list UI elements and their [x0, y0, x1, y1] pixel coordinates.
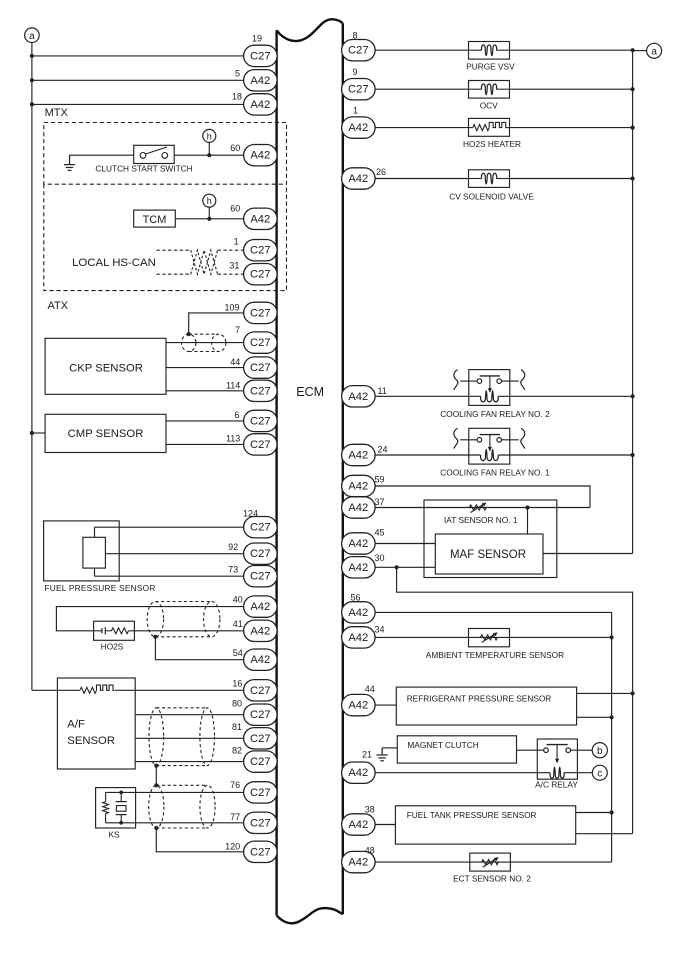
MAGNET CLUTCH box: [397, 736, 516, 763]
CMP SENSOR box: [45, 414, 166, 452]
svg-text:37: 37: [375, 497, 385, 507]
connector C27 pin 9: [342, 79, 376, 100]
wire refrigerant top out: [577, 692, 633, 694]
svg-text:h: h: [207, 196, 212, 206]
wire pin73: [95, 575, 244, 577]
wire relay contact to node b: [571, 749, 593, 751]
shield (CKP pin7): [182, 334, 196, 351]
connector C27 pin 80: [244, 704, 278, 725]
svg-text:54: 54: [233, 648, 243, 658]
svg-text:26: 26: [376, 167, 386, 177]
connector A42 pin 54: [244, 649, 278, 670]
svg-text:A42: A42: [348, 502, 368, 514]
connector C27 pin 113: [244, 434, 278, 455]
wire pin76: [136, 791, 244, 793]
svg-text:C27: C27: [250, 415, 271, 427]
connector A42 pin 60: [244, 145, 278, 166]
connector A42 pin 18: [244, 94, 278, 115]
svg-text:34: 34: [375, 625, 385, 635]
a-bus vertical wire: [632, 50, 634, 553]
ATX dashed box: [44, 184, 287, 290]
shield link wire: [155, 766, 157, 786]
svg-text:C27: C27: [250, 337, 271, 349]
connector C27 pin 1: [244, 240, 278, 261]
svg-text:A42: A42: [250, 99, 270, 111]
wire pin16: [115, 689, 244, 691]
A/C relay coil: [550, 767, 564, 778]
thermistor IAT SENSOR NO.1: [469, 505, 486, 510]
svg-text:C27: C27: [250, 756, 271, 768]
FUEL PRESSURE SENSOR box: [44, 521, 120, 581]
svg-text:b: b: [597, 746, 603, 757]
wire bus to CMP: [32, 432, 45, 434]
KS box: [96, 788, 136, 828]
svg-text:A42: A42: [348, 857, 368, 869]
svg-text:A42: A42: [348, 632, 368, 644]
connector A42 pin 56: [342, 602, 376, 623]
HO2S box: [94, 621, 135, 640]
connector A42 pin 41: [244, 620, 278, 641]
connector A42 pin 44: [342, 694, 376, 715]
wire pin80: [135, 714, 243, 716]
svg-text:77: 77: [230, 812, 240, 822]
svg-text:82: 82: [232, 746, 242, 756]
wire pin81: [135, 737, 243, 739]
svg-text:45: 45: [375, 527, 385, 537]
svg-text:C27: C27: [250, 709, 271, 721]
wire pin8 to PURGE VSV: [375, 49, 468, 51]
svg-text:A42: A42: [348, 122, 368, 134]
wire pin45: [375, 543, 435, 545]
wire relay coil to node c: [564, 772, 592, 774]
wire pin48 (ECT): [375, 861, 611, 863]
svg-text:C27: C27: [250, 571, 271, 583]
connector C27 pin 76: [244, 782, 278, 803]
KS rails: [106, 791, 136, 793]
svg-text:OCV: OCV: [480, 101, 498, 111]
svg-text:81: 81: [232, 722, 242, 732]
wire pin21 to relay coil: [375, 772, 550, 774]
connector A42 pin 21: [342, 762, 376, 783]
svg-text:80: 80: [232, 699, 242, 709]
CKP SENSOR box: [45, 338, 166, 394]
svg-text:C27: C27: [250, 522, 271, 534]
connector A42 pin 59: [342, 475, 376, 496]
HO2S cell + resistor: [94, 630, 102, 632]
svg-text:21: 21: [362, 749, 372, 759]
wire switch to pin60: [174, 154, 243, 156]
ECM bottom break wave: [277, 908, 343, 923]
shield (HO2S): [147, 602, 163, 637]
wire HO2S HEATER to a-bus: [510, 127, 633, 129]
shield (A/F sensor): [149, 708, 164, 766]
solenoid CV SOLENOID VALVE: [469, 170, 510, 188]
relay COOLING FAN RELAY NO.2 armature arrow: [489, 376, 491, 389]
svg-text:CMP SENSOR: CMP SENSOR: [68, 428, 144, 440]
connector A42 pin 37: [342, 497, 376, 518]
left bus wire: [31, 43, 33, 691]
wire pin1 to HO2S HEATER: [375, 127, 468, 129]
svg-text:A42: A42: [348, 562, 368, 574]
relay COOLING FAN RELAY NO.1 wire-break braces: [454, 428, 458, 448]
svg-text:ECM: ECM: [296, 385, 324, 399]
node c: [592, 765, 607, 780]
svg-text:C27: C27: [348, 84, 369, 96]
net30 wire down: [397, 567, 633, 833]
svg-text:9: 9: [353, 67, 358, 77]
wire bus to A/F heater: [32, 689, 58, 691]
svg-text:A42: A42: [250, 150, 270, 162]
svg-text:1: 1: [353, 106, 358, 116]
wire refrigerant bottom out: [577, 716, 612, 718]
svg-text:COOLING FAN RELAY NO. 2: COOLING FAN RELAY NO. 2: [440, 409, 550, 419]
wire pin18: [32, 103, 244, 105]
ECM right edge: [342, 23, 344, 914]
wire pin113: [166, 443, 244, 445]
svg-text:HO2S HEATER: HO2S HEATER: [463, 139, 521, 149]
svg-text:31: 31: [229, 261, 239, 271]
wire OCV to a-bus: [510, 88, 633, 90]
wire pin109: [189, 313, 244, 334]
ground (magnet clutch): [382, 747, 397, 749]
connector C27 pin 16: [244, 680, 278, 701]
svg-text:8: 8: [353, 31, 358, 41]
wire pin9 to OCV: [375, 88, 468, 90]
svg-text:124: 124: [243, 508, 258, 518]
A/F SENSOR box: [57, 678, 135, 769]
shield (KS): [149, 785, 164, 828]
wire pin24 through relay coil to a-bus: [375, 454, 481, 456]
svg-text:A42: A42: [250, 625, 270, 637]
wire pin11 through relay coil to a-bus: [375, 395, 481, 397]
A/C relay armature arrow: [556, 745, 558, 760]
svg-text:C27: C27: [250, 817, 271, 829]
svg-text:73: 73: [228, 565, 238, 575]
svg-text:A42: A42: [250, 213, 270, 225]
wire PURGE VSV to a-bus: [510, 49, 633, 51]
svg-text:TCM: TCM: [143, 214, 167, 226]
thermistor ECT SENSOR NO.2: [470, 853, 511, 871]
TCM box: [134, 210, 176, 227]
svg-text:CLUTCH START SWITCH: CLUTCH START SWITCH: [95, 164, 192, 174]
svg-text:41: 41: [233, 619, 243, 629]
svg-text:C27: C27: [250, 269, 271, 281]
svg-text:59: 59: [375, 475, 385, 485]
relay A/C RELAY box: [537, 739, 577, 779]
svg-text:PURGE VSV: PURGE VSV: [466, 62, 515, 72]
svg-text:C27: C27: [250, 787, 271, 799]
MAF SENSOR box: [435, 534, 543, 574]
connector C27 pin 124: [244, 517, 278, 538]
connector C27 pin 82: [244, 751, 278, 772]
svg-text:30: 30: [375, 553, 385, 563]
relay COOLING FAN RELAY NO.2 box: [469, 370, 510, 406]
wire pin56: [375, 612, 611, 862]
svg-text:92: 92: [228, 542, 238, 552]
svg-text:19: 19: [252, 33, 262, 43]
connector A42 pin 60: [244, 208, 278, 229]
wire TCM to pin60: [175, 218, 243, 220]
svg-text:A42: A42: [348, 173, 368, 185]
relay COOLING FAN RELAY NO.1 box: [469, 428, 510, 464]
wire pin44: [166, 367, 244, 369]
relay COOLING FAN RELAY NO.1 coil: [481, 450, 499, 461]
svg-text:REFRIGERANT PRESSURE SENSOR: REFRIGERANT PRESSURE SENSOR: [407, 693, 552, 703]
wire pin7: [166, 342, 244, 344]
relay COOLING FAN RELAY NO.1 contacts: [460, 439, 477, 441]
svg-text:SENSOR: SENSOR: [67, 735, 115, 747]
svg-text:C27: C27: [250, 548, 271, 560]
connector A42 pin 5: [244, 70, 278, 91]
node a (left): [25, 28, 40, 43]
relay COOLING FAN RELAY NO.2 contacts: [460, 380, 477, 382]
connector A42 pin 11: [342, 386, 376, 407]
twisted pair CAN wires: [157, 249, 191, 251]
svg-text:6: 6: [234, 410, 239, 420]
connector C27 pin 77: [244, 812, 278, 833]
connector C27 pin 92: [244, 543, 278, 564]
connector C27 pin 19: [244, 45, 278, 66]
svg-text:44: 44: [230, 357, 240, 367]
svg-text:C27: C27: [250, 685, 271, 697]
svg-text:A42: A42: [250, 75, 270, 87]
svg-text:CKP SENSOR: CKP SENSOR: [69, 362, 143, 374]
wire pin120 (shield drain): [156, 828, 243, 852]
svg-text:C27: C27: [250, 846, 271, 858]
connector C27 pin 31: [244, 264, 278, 285]
wire pin19: [32, 55, 244, 57]
node b: [592, 743, 607, 758]
wire IAT junction into MAF: [527, 508, 529, 535]
wire pin124: [95, 526, 244, 528]
thermistor AMBIENT TEMPERATURE SENSOR: [469, 629, 510, 647]
svg-text:C27: C27: [250, 362, 271, 374]
wire pin40: [56, 607, 243, 631]
wire pin92: [105, 553, 243, 555]
A/F heater element: [57, 689, 80, 691]
connector A42 pin 30: [342, 557, 376, 578]
ECM left edge: [275, 30, 277, 915]
svg-text:MTX: MTX: [45, 107, 69, 119]
svg-text:A42: A42: [250, 654, 270, 666]
svg-text:76: 76: [230, 780, 240, 790]
connector A42 pin 45: [342, 533, 376, 554]
node h (switch): [203, 129, 216, 142]
svg-text:113: 113: [226, 433, 240, 443]
fuel pressure sensor element: [83, 537, 106, 568]
wire fuel tank bottom out: [576, 833, 633, 835]
connector A42 pin 38: [342, 814, 376, 835]
svg-text:1: 1: [234, 237, 239, 247]
solenoid PURGE VSV: [469, 42, 510, 60]
relay COOLING FAN RELAY NO.1 armature arrow: [489, 435, 491, 448]
svg-text:ATX: ATX: [48, 300, 69, 312]
svg-text:24: 24: [378, 445, 388, 455]
svg-text:IAT SENSOR NO. 1: IAT SENSOR NO. 1: [444, 515, 518, 525]
wire pin30: [375, 566, 435, 568]
wire pin26 to CV SOLENOID VALVE: [375, 178, 468, 180]
ground (clutch start switch): [69, 155, 71, 164]
resistor HO2S HEATER: [469, 118, 510, 136]
connector C27 pin 7: [244, 332, 278, 353]
wire CV SOLENOID VALVE to a-bus: [510, 178, 633, 180]
svg-text:h: h: [207, 131, 212, 141]
connector C27 pin 44: [244, 357, 278, 378]
svg-text:5: 5: [235, 68, 240, 78]
svg-text:FUEL TANK PRESSURE SENSOR: FUEL TANK PRESSURE SENSOR: [407, 810, 537, 820]
connector A42 pin 1: [342, 117, 376, 138]
wire fuel tank top out: [576, 812, 612, 814]
connector A42 pin 40: [244, 596, 278, 617]
wire pin114: [166, 390, 244, 392]
svg-text:KS: KS: [108, 830, 120, 840]
svg-text:7: 7: [235, 325, 240, 335]
connector C27 pin 81: [244, 728, 278, 749]
MAF assembly outer box: [424, 500, 557, 578]
svg-text:a: a: [29, 31, 35, 42]
connector C27 pin 6: [244, 410, 278, 431]
svg-text:18: 18: [232, 92, 242, 102]
svg-text:MAGNET CLUTCH: MAGNET CLUTCH: [407, 740, 478, 750]
relay COOLING FAN RELAY NO.2 wire-break braces: [454, 370, 458, 390]
svg-text:60: 60: [230, 203, 240, 213]
wire pin82: [135, 761, 243, 763]
wire pin37 (IAT): [375, 507, 590, 509]
svg-text:a: a: [651, 46, 657, 57]
node h (TCM): [203, 194, 216, 207]
wire MAF output to a-bus: [543, 553, 633, 555]
connector A42 pin 34: [342, 627, 376, 648]
svg-text:COOLING FAN RELAY NO. 1: COOLING FAN RELAY NO. 1: [440, 468, 550, 478]
wire pin44: [375, 704, 396, 706]
connector A42 pin 24: [342, 444, 376, 465]
wire pin38: [375, 824, 395, 826]
FUEL TANK PRESSURE SENSOR box: [395, 806, 575, 844]
svg-text:A42: A42: [348, 819, 368, 831]
connector C27 pin 8: [342, 40, 376, 61]
connector C27 pin 109: [244, 302, 278, 323]
svg-text:16: 16: [232, 679, 242, 689]
MTX dashed box: [44, 123, 287, 185]
svg-text:A/C RELAY: A/C RELAY: [535, 779, 578, 789]
svg-text:C27: C27: [348, 45, 369, 57]
svg-text:LOCAL HS-CAN: LOCAL HS-CAN: [72, 257, 156, 269]
svg-text:109: 109: [224, 302, 239, 312]
connector C27 pin 114: [244, 380, 278, 401]
svg-text:A42: A42: [348, 538, 368, 550]
svg-text:C27: C27: [250, 50, 271, 62]
wire pin77: [136, 822, 244, 824]
svg-text:A42: A42: [348, 450, 368, 462]
svg-text:A42: A42: [348, 481, 368, 493]
wire pin41: [134, 630, 243, 632]
wire pin59: [375, 486, 590, 508]
wire pin6: [166, 420, 244, 422]
svg-text:C27: C27: [250, 439, 271, 451]
svg-text:C27: C27: [250, 245, 271, 257]
ECM top break wave: [277, 19, 343, 41]
REFRIGERANT PRESSURE SENSOR box: [396, 687, 576, 725]
svg-text:C27: C27: [250, 307, 271, 319]
svg-text:C27: C27: [250, 385, 271, 397]
wire magnet clutch to relay contact: [517, 749, 544, 751]
svg-text:HO2S: HO2S: [101, 641, 124, 651]
solenoid OCV: [469, 81, 510, 99]
svg-text:11: 11: [378, 386, 387, 396]
connector A42 pin 48: [342, 851, 376, 872]
svg-text:FUEL PRESSURE SENSOR: FUEL PRESSURE SENSOR: [44, 583, 155, 593]
svg-text:CV SOLENOID VALVE: CV SOLENOID VALVE: [449, 191, 534, 201]
wire pin5: [32, 79, 244, 81]
wire ground to switch: [70, 154, 134, 156]
svg-text:MAF SENSOR: MAF SENSOR: [450, 549, 526, 561]
connector C27 pin 120: [244, 841, 278, 862]
wire pin54 (shield drain): [155, 637, 243, 660]
connector A42 pin 26: [342, 168, 376, 189]
svg-text:44: 44: [365, 684, 375, 694]
svg-text:60: 60: [230, 143, 240, 153]
wire pin34: [375, 636, 611, 638]
svg-text:120: 120: [225, 842, 240, 852]
svg-text:A42: A42: [348, 700, 368, 712]
svg-text:114: 114: [226, 381, 240, 391]
svg-text:A42: A42: [348, 767, 368, 779]
svg-text:A/F: A/F: [67, 719, 85, 731]
svg-text:56: 56: [351, 592, 361, 602]
svg-text:AMBIENT TEMPERATURE SENSOR: AMBIENT TEMPERATURE SENSOR: [426, 650, 564, 660]
svg-text:A42: A42: [250, 601, 270, 613]
svg-text:40: 40: [233, 594, 243, 604]
svg-text:38: 38: [365, 804, 375, 814]
KS resistor: [105, 792, 107, 801]
svg-text:ECT SENSOR NO. 2: ECT SENSOR NO. 2: [453, 874, 531, 884]
switch CLUTCH START SWITCH: [134, 145, 175, 163]
connector C27 pin 73: [244, 566, 278, 587]
svg-text:48: 48: [365, 845, 375, 855]
svg-text:A42: A42: [348, 391, 368, 403]
svg-text:c: c: [597, 768, 602, 779]
svg-text:C27: C27: [250, 733, 271, 745]
svg-text:A42: A42: [348, 607, 368, 619]
node a (right): [633, 50, 647, 52]
relay COOLING FAN RELAY NO.2 coil: [481, 391, 499, 402]
KS piezo element: [120, 792, 122, 801]
